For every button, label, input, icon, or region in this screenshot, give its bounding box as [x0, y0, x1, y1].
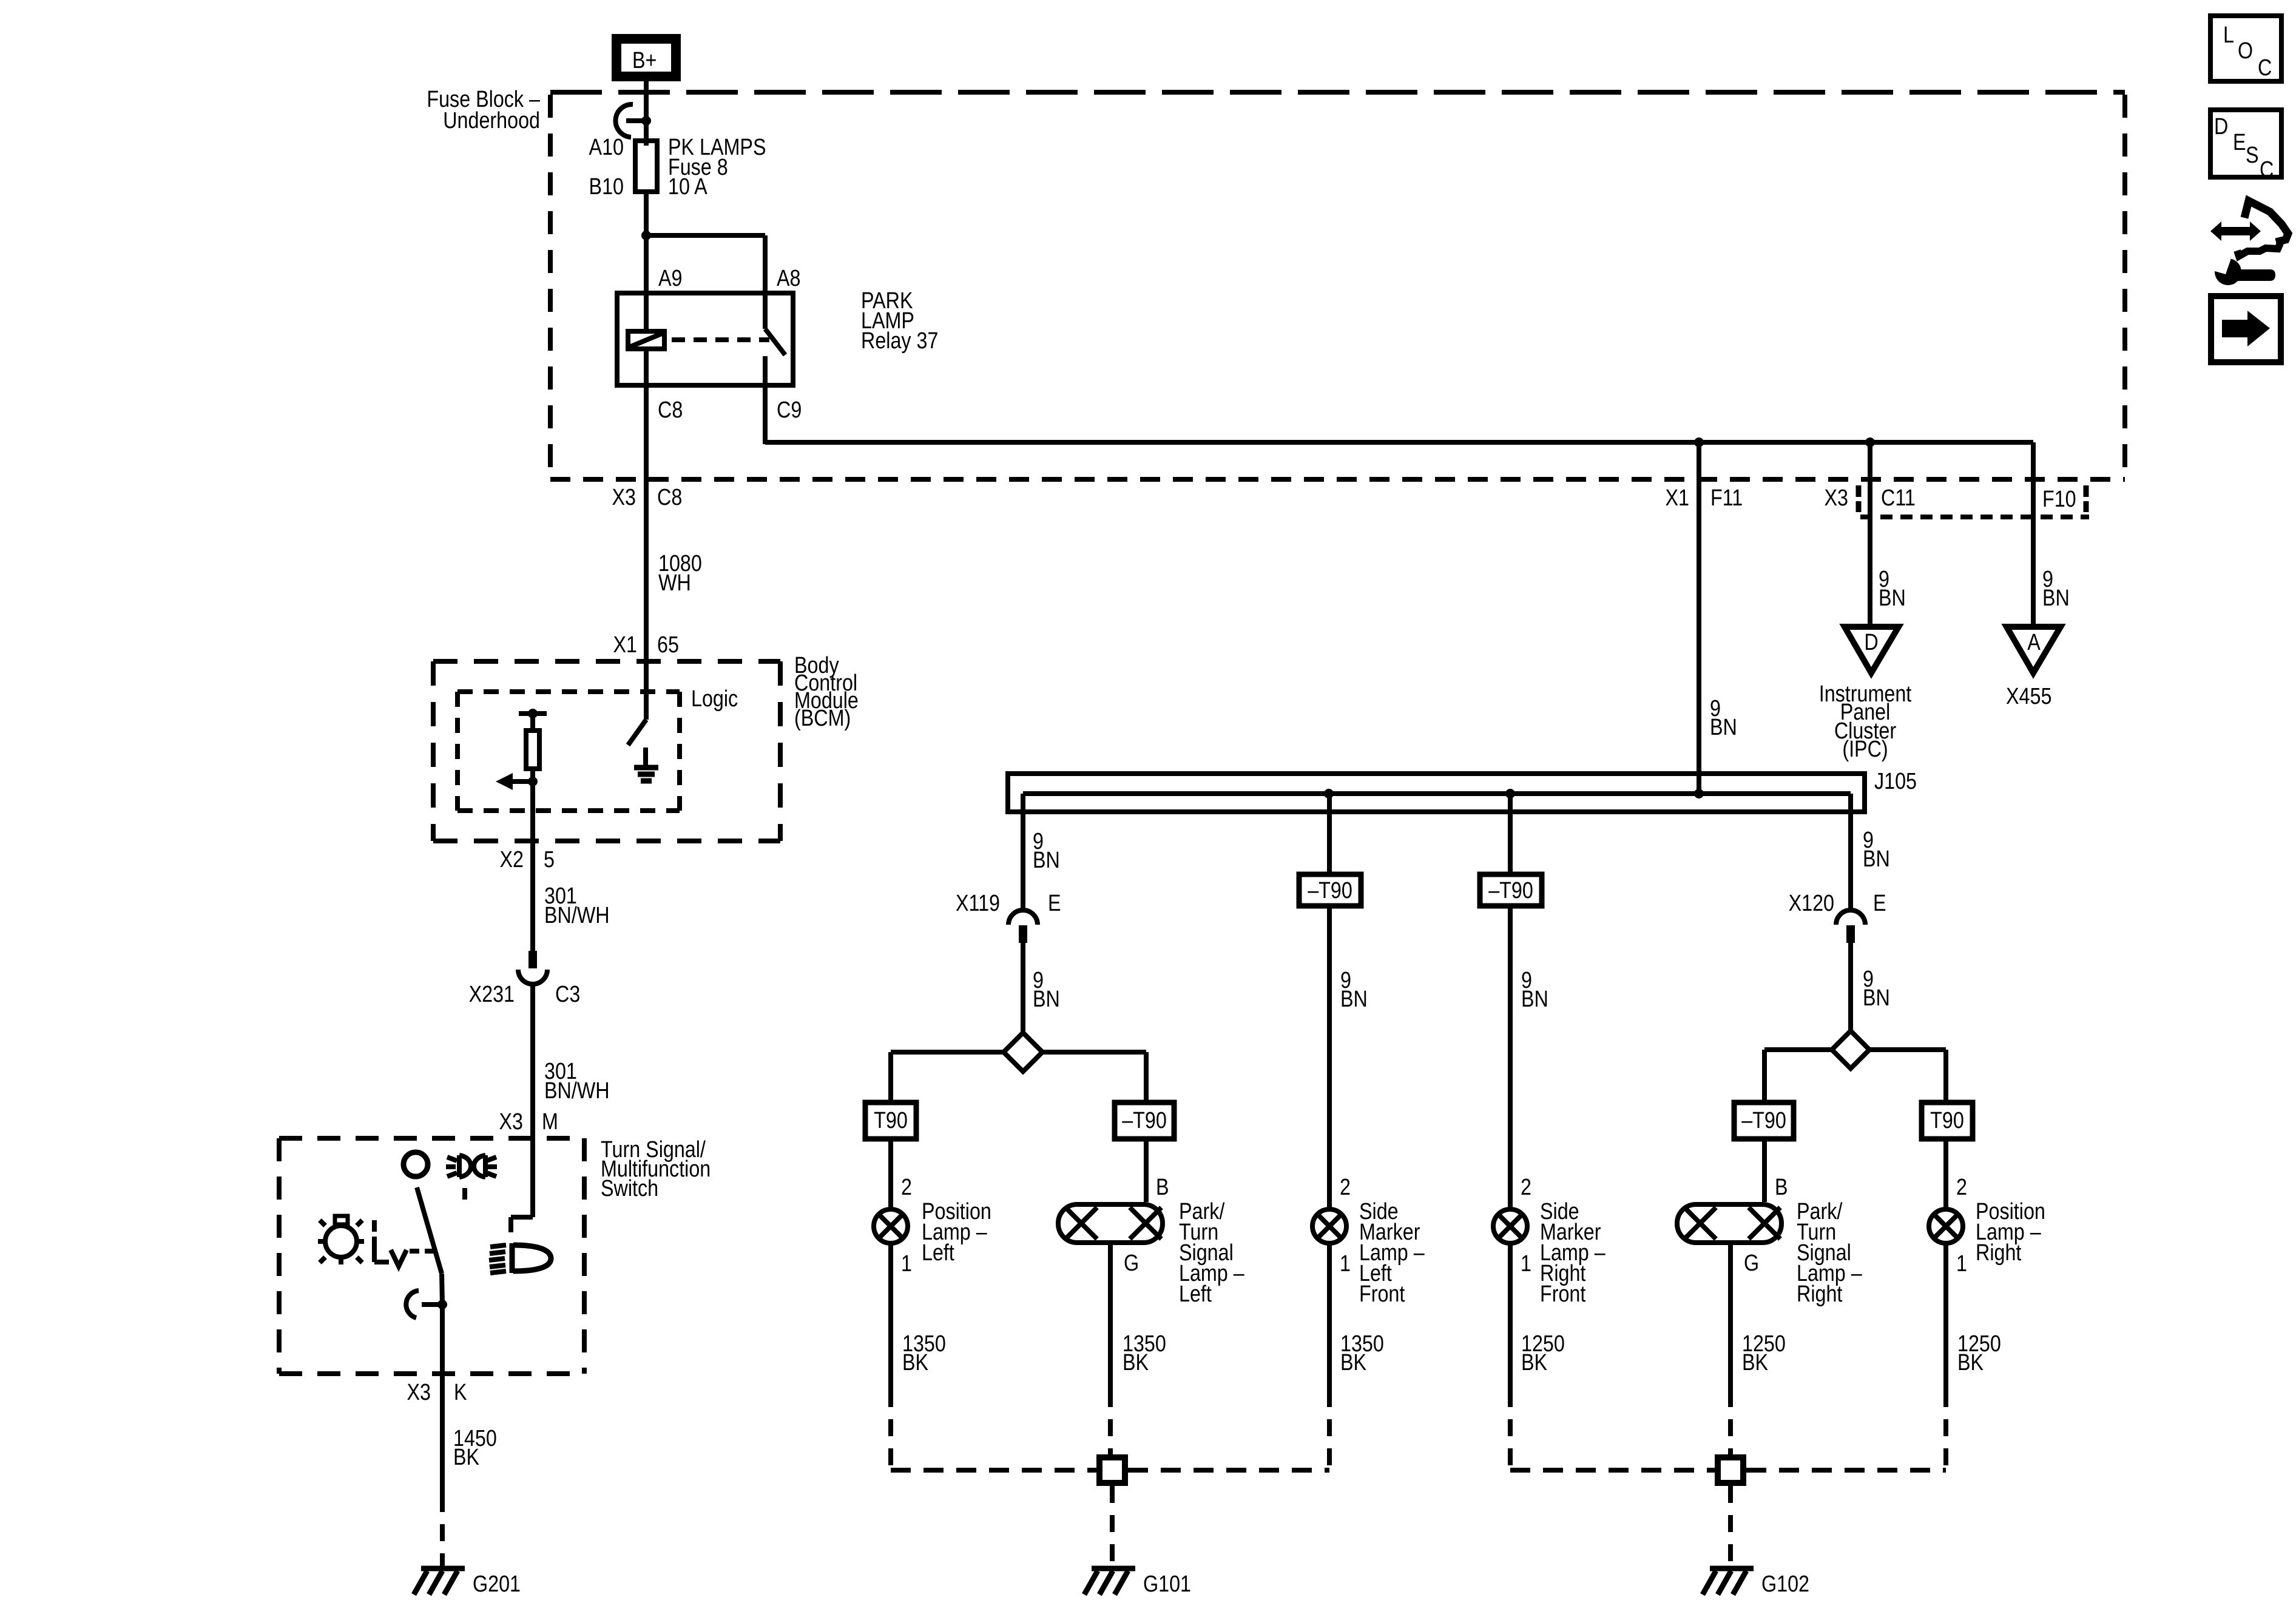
svg-text:65: 65 [657, 632, 679, 658]
wire 9 BN label X120 bottom [1863, 967, 1890, 1011]
dashed wire to G201 [440, 1495, 445, 1568]
dashed ground drops left [891, 1390, 1329, 1470]
wire C9 feed run [765, 440, 2033, 445]
connector X120 E labels [1789, 891, 1886, 916]
wire 9 BN label F10 [2042, 567, 2070, 611]
svg-text:C8: C8 [658, 397, 683, 423]
svg-text:M: M [542, 1109, 558, 1135]
svg-text:F11: F11 [1710, 485, 1743, 511]
svg-text:T90: T90 [1930, 1108, 1964, 1133]
option box -T90 park/turn right [1734, 1102, 1794, 1139]
position lamp right [1929, 1209, 1963, 1243]
park lamp position icon [318, 1216, 364, 1264]
connector X3 M labels [499, 1109, 558, 1135]
icon DESC [2210, 110, 2281, 183]
svg-text:X3: X3 [1825, 485, 1848, 511]
wire C11 drop [1868, 442, 1872, 627]
inline connector X120 [1836, 910, 1865, 943]
wire -T90 to park turn left [1144, 1139, 1149, 1202]
position right label [1976, 1199, 2045, 1266]
wire F10 drop [2031, 442, 2036, 627]
ground bus G101 [891, 1468, 1329, 1473]
switch name label [601, 1137, 711, 1201]
splice pack J105 [1008, 774, 1865, 812]
svg-text:BN: BN [1033, 848, 1060, 873]
connector mark X3 [1856, 485, 1862, 512]
junction dot bus 1 [1324, 789, 1334, 798]
connector mark F10 [2084, 485, 2089, 512]
icon arrow next [2211, 296, 2281, 362]
relay coil [628, 293, 664, 385]
wire park/turn right G down [1728, 1243, 1733, 1390]
relay switch blade [765, 293, 785, 444]
svg-text:E: E [2233, 130, 2246, 155]
svg-text:B: B [1156, 1175, 1169, 1200]
svg-text:S: S [2246, 143, 2259, 168]
wire 1250 BK label 1 [1521, 1331, 1565, 1376]
svg-text:BN: BN [1710, 715, 1737, 740]
svg-text:–T90: –T90 [1488, 878, 1533, 903]
svg-text:A9: A9 [658, 266, 682, 291]
icon LOC [2210, 16, 2281, 81]
off-page triangle D [1845, 627, 1899, 673]
wire to T90 right [1869, 1050, 1946, 1102]
svg-text:C9: C9 [777, 397, 802, 423]
junction dot C11 [1865, 437, 1875, 447]
svg-text:2: 2 [1521, 1175, 1531, 1200]
svg-text:B10: B10 [589, 174, 624, 200]
svg-text:1: 1 [1340, 1251, 1351, 1277]
connector X2 5 labels [500, 847, 555, 873]
icon harness routing [2210, 201, 2288, 285]
svg-text:O: O [2238, 38, 2253, 64]
relay link dashed [672, 337, 769, 342]
svg-text:(IPC): (IPC) [1842, 737, 1888, 762]
svg-text:D: D [2214, 114, 2228, 140]
svg-text:BN: BN [1340, 987, 1368, 1012]
wire position left down [888, 1243, 893, 1390]
junction dot below fuse [641, 231, 651, 240]
option box T90 left [865, 1102, 916, 1139]
svg-text:X231: X231 [469, 982, 515, 1007]
side marker right label [1540, 1199, 1606, 1307]
dashed wire to G101 [1110, 1486, 1115, 1568]
fuse block label [427, 87, 540, 133]
inline connector X231 [518, 951, 547, 984]
svg-text:B+: B+ [632, 48, 657, 73]
svg-text:X3: X3 [499, 1109, 523, 1135]
svg-text:1: 1 [901, 1251, 912, 1277]
option box -T90 side marker right [1480, 874, 1542, 906]
splice square G101 [1099, 1457, 1125, 1483]
wire B+ to fuse [644, 81, 649, 141]
svg-text:–T90: –T90 [1122, 1108, 1167, 1133]
svg-text:BK: BK [1742, 1350, 1769, 1376]
fuse PK LAMPS Fuse 8 10A [635, 141, 657, 192]
off-page triangle A [2007, 627, 2061, 673]
wire position right down [1943, 1243, 1948, 1390]
svg-text:2: 2 [1956, 1175, 1967, 1200]
fuse value label [668, 135, 766, 200]
svg-text:BN: BN [1863, 846, 1890, 872]
dashed wire to G102 [1728, 1486, 1733, 1568]
headlamp low beam icon [489, 1243, 551, 1273]
wire 9 BN label F11 [1710, 696, 1737, 740]
svg-text:BN: BN [1033, 987, 1060, 1012]
option box T90 right [1922, 1102, 1973, 1139]
svg-text:E: E [1873, 891, 1886, 916]
connector X1 F11 labels [1666, 485, 1743, 511]
wire 9 BN label X119 top [1033, 829, 1060, 873]
wire F11 drop [1697, 442, 1701, 794]
park/turn left label [1179, 1199, 1244, 1307]
svg-text:X3: X3 [407, 1380, 431, 1405]
junction dot bus F11 [1694, 789, 1704, 798]
svg-text:X455: X455 [2006, 684, 2051, 709]
junction dot bus 2 [1505, 789, 1515, 798]
wire 301 BN/WH label [544, 883, 610, 928]
svg-text:Logic: Logic [691, 686, 738, 712]
wire 1350 BK label 2 [1123, 1331, 1166, 1376]
BCM internal ground [634, 748, 658, 781]
splice square G102 [1718, 1457, 1743, 1483]
connector X119 E labels [956, 891, 1061, 916]
svg-text:F10: F10 [2042, 487, 2076, 512]
wire X231 to switch [530, 984, 535, 1217]
wire 1450 BK label [453, 1426, 497, 1470]
wire 9 BN label X119 bottom [1033, 968, 1060, 1012]
park/turn right label [1797, 1199, 1862, 1307]
svg-text:BK: BK [902, 1350, 929, 1376]
switch pivot hook [406, 1291, 447, 1318]
wire X2-5 down [530, 781, 535, 951]
wire X120 drop [1848, 794, 1853, 910]
connector X231 C3 labels [469, 982, 581, 1007]
svg-text:G: G [1744, 1251, 1759, 1276]
svg-text:BK: BK [1957, 1350, 1984, 1376]
connector X3 C11 labels [1825, 485, 1916, 511]
ground G101 [1084, 1568, 1191, 1597]
side marker left label [1359, 1199, 1425, 1307]
BCM driver switch [628, 661, 646, 745]
turn signal multifunction switch box [279, 1138, 584, 1374]
park position contact [374, 1237, 407, 1266]
wire T90 to position lamp left [888, 1139, 893, 1209]
wire C8 to BCM [644, 385, 649, 661]
wire 1250 BK label 2 [1742, 1331, 1786, 1376]
svg-text:–T90: –T90 [1308, 878, 1352, 903]
svg-text:(BCM): (BCM) [794, 706, 851, 731]
svg-text:E: E [1048, 891, 1061, 916]
svg-text:BN: BN [1521, 987, 1548, 1012]
switch blade [417, 1187, 442, 1305]
connector X1 65 labels [613, 632, 679, 658]
svg-text:WH: WH [658, 570, 691, 596]
svg-text:1: 1 [1956, 1251, 1967, 1277]
svg-text:A10: A10 [589, 135, 624, 160]
ground bus G102 [1510, 1468, 1946, 1473]
svg-text:BN/WH: BN/WH [544, 903, 610, 928]
svg-text:X120: X120 [1789, 891, 1834, 916]
wire 301 BN/WH label 2 [544, 1059, 610, 1104]
wire side marker right drop [1508, 794, 1513, 874]
svg-text:X2: X2 [500, 847, 524, 873]
svg-text:5: 5 [544, 847, 555, 873]
svg-text:D: D [1864, 630, 1878, 655]
relay name label [861, 288, 938, 354]
BCM name label [794, 653, 859, 731]
svg-text:C: C [2258, 55, 2272, 81]
svg-text:G101: G101 [1143, 1571, 1191, 1597]
svg-text:Switch: Switch [601, 1176, 658, 1201]
park position detent [372, 1220, 377, 1232]
BCM box [433, 661, 780, 841]
BCM sense arrow [496, 773, 538, 790]
svg-text:A8: A8 [777, 266, 800, 291]
svg-text:BN: BN [2042, 586, 2070, 611]
svg-text:BN: BN [1879, 586, 1906, 611]
svg-text:J105: J105 [1874, 769, 1917, 794]
svg-text:T90: T90 [874, 1108, 908, 1133]
svg-text:BK: BK [453, 1445, 480, 1470]
position lamp left [874, 1209, 908, 1243]
svg-text:K: K [454, 1380, 467, 1405]
svg-text:Left: Left [922, 1240, 954, 1266]
side marker lamp right [1493, 1209, 1527, 1243]
wire 1350 BK label 1 [902, 1331, 946, 1376]
svg-text:B: B [1775, 1175, 1788, 1200]
svg-text:A: A [2027, 630, 2041, 655]
wire K down [440, 1305, 445, 1495]
svg-text:C11: C11 [1881, 485, 1916, 511]
side marker lamp left [1312, 1209, 1346, 1243]
svg-text:Right: Right [1797, 1281, 1843, 1307]
wire X119 to splice [1021, 943, 1025, 1033]
wire side marker right down [1508, 1243, 1513, 1390]
svg-text:C3: C3 [555, 982, 580, 1007]
wire to -T90 left [1042, 1052, 1146, 1102]
switch M contact [511, 1217, 533, 1232]
BCM logic box [458, 692, 680, 811]
svg-text:BK: BK [1123, 1350, 1149, 1376]
svg-text:X1: X1 [1666, 485, 1689, 511]
position lamp left label [922, 1199, 991, 1266]
wire 1080 WH label [658, 551, 702, 596]
svg-text:10 A: 10 A [668, 174, 707, 200]
fuse block underhood box [550, 92, 2125, 479]
svg-text:2: 2 [1340, 1175, 1351, 1200]
svg-text:L: L [2223, 22, 2234, 48]
inline connector X119 [1008, 910, 1038, 943]
mechanical link dashes [410, 1249, 434, 1254]
IPC connector strip [1860, 515, 2089, 519]
svg-text:Right: Right [1976, 1240, 2022, 1266]
ground G102 [1703, 1568, 1809, 1597]
park/turn signal lamp right [1677, 1204, 1781, 1243]
svg-text:Left: Left [1179, 1281, 1212, 1307]
dashed ground drops right [1510, 1390, 1946, 1470]
svg-text:G102: G102 [1761, 1571, 1809, 1597]
svg-text:1: 1 [1521, 1251, 1531, 1277]
ground G201 [414, 1568, 521, 1597]
wire 9 BN label SMR [1521, 968, 1548, 1012]
wire 1250 BK label 3 [1957, 1331, 2001, 1376]
wire fuse to relay A9 [644, 192, 649, 293]
wire -T90 to park turn right [1762, 1139, 1767, 1202]
option box -T90 park/turn left [1115, 1102, 1174, 1139]
BCM sense resistor [519, 709, 547, 781]
svg-text:Relay 37: Relay 37 [861, 328, 938, 354]
wire X120 to splice [1848, 943, 1853, 1031]
svg-text:BK: BK [1340, 1350, 1367, 1376]
svg-text:X3: X3 [612, 485, 636, 510]
park/turn signal lamp left [1058, 1204, 1163, 1243]
svg-text:Underhood: Underhood [443, 108, 540, 133]
junction dot F11 [1694, 437, 1704, 447]
wire T90 to position lamp right [1943, 1139, 1948, 1209]
svg-text:BN/WH: BN/WH [544, 1078, 610, 1104]
switch off terminal [403, 1152, 428, 1176]
flash detent [462, 1188, 467, 1200]
battery tap hook [615, 104, 643, 137]
wire to -T90 right [1764, 1050, 1832, 1102]
wire side marker left down [1327, 1243, 1332, 1390]
wire 9 BN label SML [1340, 968, 1368, 1012]
svg-text:BN: BN [1863, 985, 1890, 1011]
svg-text:BK: BK [1521, 1350, 1548, 1376]
svg-text:G: G [1124, 1251, 1139, 1276]
wire to T90 left [891, 1052, 1004, 1102]
wire branch to A8 [646, 235, 765, 293]
wire 9 BN label X120 top [1863, 828, 1890, 872]
option box -T90 side marker left [1299, 874, 1361, 906]
svg-text:X119: X119 [956, 891, 1000, 916]
wire park/turn left G down [1108, 1243, 1113, 1390]
wire side marker left drop [1327, 794, 1332, 874]
svg-text:Front: Front [1540, 1281, 1586, 1307]
svg-text:–T90: –T90 [1741, 1108, 1786, 1133]
headlamp flash icon [446, 1155, 497, 1177]
wire 1350 BK label 3 [1340, 1331, 1384, 1376]
power feed B+ [616, 39, 676, 76]
svg-text:X1: X1 [613, 632, 637, 658]
wire 9 BN label C11 [1879, 567, 1906, 611]
splice diamond right [1832, 1031, 1869, 1068]
IPC name label [1819, 681, 1912, 762]
svg-text:2: 2 [901, 1175, 912, 1200]
junction dot A10 [641, 116, 651, 126]
svg-text:C8: C8 [657, 485, 682, 510]
splice diamond left [1004, 1033, 1042, 1072]
connector X3 K labels [407, 1380, 467, 1405]
connector X3 C8 labels [612, 485, 683, 510]
svg-text:Front: Front [1359, 1281, 1405, 1307]
wire X119 drop [1021, 794, 1025, 910]
svg-text:G201: G201 [473, 1571, 521, 1597]
relay K37 box [617, 293, 793, 385]
svg-text:C: C [2260, 157, 2274, 183]
